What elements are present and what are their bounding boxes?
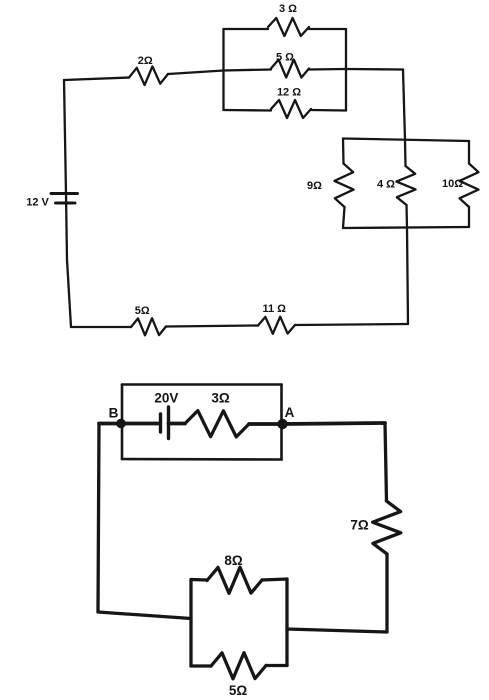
wire box1 bottom edge right segment [311,109,346,112]
wire box3 top edge [122,383,282,386]
wire box2 bottom edge [343,227,469,228]
label 7Ω [350,518,369,533]
battery V1 12V long plate [51,192,78,195]
label 9Ω [307,180,322,192]
svg-text:12 Ω: 12 Ω [277,86,301,98]
wire box3 left edge [121,385,124,460]
resistor R2 3Ω [268,18,309,36]
label 5Ω [135,305,150,317]
resistor R1 2Ω [129,66,168,85]
resistor R13 5Ω [211,653,266,679]
wire box1 to box2 vertical [403,70,405,141]
label B [109,406,119,421]
wire 3Ω to node A [249,422,283,426]
wire bottom-right horizontal [287,629,387,632]
svg-text:B: B [109,406,119,421]
resistor R5 9Ω [334,164,353,208]
wire box3 right edge [280,385,283,460]
label 12 Ω [277,86,301,98]
svg-text:20V: 20V [154,391,178,406]
battery V2 20V short plate [159,414,162,432]
wire box2 to bottom-right corner [407,228,408,324]
wire box4 top edge right segment [262,579,287,580]
svg-text:4 Ω: 4 Ω [377,179,395,191]
wire box2 middle branch upper segment [404,140,407,166]
wire box1 bottom edge left segment [224,109,272,112]
wire node A to top-right corner [283,423,385,424]
wire box4 bottom edge left segment [191,664,211,667]
svg-text:9Ω: 9Ω [307,180,322,192]
label 10Ω [442,178,463,190]
wire box2 left edge upper segment [342,139,345,164]
wire box4 bottom edge right segment [266,664,287,667]
wire box1 left edge [222,29,224,110]
resistor R11 7Ω [373,501,401,554]
wire box4 right edge [285,579,288,666]
resistor R8 5Ω [131,318,166,335]
svg-text:5 Ω: 5 Ω [276,51,294,63]
wire top-left horizontal [64,78,129,81]
resistor R7 10Ω [460,164,479,208]
node B [116,419,126,429]
wire 2Ω to parallel box [168,71,224,75]
label 11 Ω [262,303,286,315]
wire box3 bottom edge [122,458,282,461]
battery V2 20V long plate [167,407,170,439]
label 2 Ω [138,55,153,67]
wire box4 top edge left segment [191,578,207,582]
label 20V [154,391,178,406]
svg-text:7Ω: 7Ω [350,518,369,533]
label 3 Ω (bottom circuit) [211,391,230,406]
wire node B to battery [99,422,160,426]
battery V1 12V short plate [56,202,76,205]
wire box2 right edge upper segment [468,141,470,164]
label 8Ω [224,553,243,568]
resistor R6 4Ω [396,166,415,205]
wire bottom right segment [295,324,408,325]
node A [277,419,287,429]
svg-text:8Ω: 8Ω [224,553,243,568]
label 5Ω (bottom circuit) [229,683,248,698]
label 12 V [26,197,49,209]
wire box1 right edge [345,29,347,111]
wire box1 top edge left segment [224,28,269,30]
wire box2 middle branch lower segment [405,205,408,228]
label 4 Ω [377,179,395,191]
resistor R9 11Ω [258,317,295,334]
wire bottom left segment [71,326,131,328]
wire bottom middle segment [166,326,258,327]
wire right vertical upper segment [385,423,387,501]
svg-text:3 Ω: 3 Ω [279,3,297,15]
wire box2 top edge [343,139,469,142]
svg-text:10Ω: 10Ω [442,178,463,190]
resistor R3 5Ω [271,60,309,78]
resistor R10 3Ω [185,411,249,437]
wire box4 left edge [189,580,192,667]
wire box1 middle branch right segment [309,68,346,71]
wire left-side vertical (12V branch) [64,80,71,327]
label 5 Ω [276,51,294,63]
resistor R4 12Ω [271,100,311,118]
resistor R12 8Ω [207,567,262,593]
svg-text:12 V: 12 V [26,197,49,209]
wire battery to 3Ω [169,422,186,426]
svg-text:3Ω: 3Ω [211,391,230,406]
wire bottom-left horizontal [98,612,191,619]
wire box2 left edge lower segment [343,207,345,228]
wire box1 middle branch left segment [224,70,272,71]
svg-text:2Ω: 2Ω [138,55,153,67]
label A [285,405,295,420]
svg-text:5Ω: 5Ω [229,683,248,698]
wire box2 right edge lower segment [468,207,470,227]
svg-text:A: A [285,405,295,420]
label 3 Ω [279,3,297,15]
wire box1 top edge right segment [309,28,346,30]
wire node B to left corner [98,424,99,613]
wire box1 to box2 horizontal [346,68,403,71]
svg-text:5Ω: 5Ω [135,305,150,317]
wire right vertical lower segment [385,554,388,632]
svg-text:11 Ω: 11 Ω [262,303,286,315]
